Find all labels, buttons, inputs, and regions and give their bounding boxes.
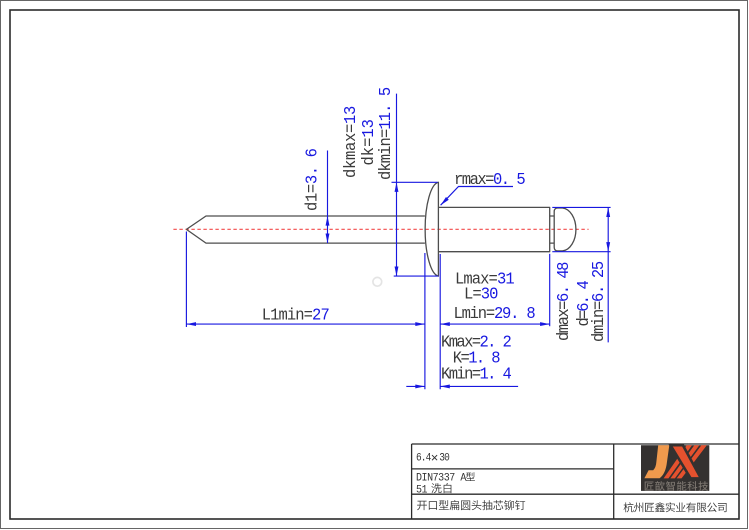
extension line body top [552,206,610,208]
arrow L left [440,322,450,326]
svg-text:×: × [431,450,439,465]
logo X descending stroke [671,445,701,478]
svg-text:Lmin=29. 8: Lmin=29. 8 [454,305,536,324]
arrow K right [440,384,450,388]
dimension line d [607,207,609,342]
dimension line L [440,323,550,325]
arrow dk bottom [395,267,399,277]
svg-text:rmax=0. 5: rmax=0. 5 [454,170,525,189]
arrow rmax leader [439,197,449,207]
logo slogan [645,482,654,491]
dimension line L1min [186,323,425,325]
extension line flange left face [424,253,426,389]
logo J [644,445,669,478]
extension line flange right face [439,254,441,389]
logo dark box [641,445,709,491]
extension line body bottom [552,251,610,253]
dimension line dk [396,94,398,277]
extension line from pin tip [185,232,187,328]
arrow L right [540,322,550,326]
pin neck between body and mandrel head [550,216,555,243]
arrow d1 bottom [326,234,330,244]
svg-text:dmin=6. 25: dmin=6. 25 [590,261,609,342]
arrow d top [606,207,610,217]
svg-text:Kmin=1. 4: Kmin=1. 4 [441,365,511,384]
mandrel pin with pointed tip [186,216,425,243]
svg-text:d1=3. 6: d1=3. 6 [303,148,322,211]
leader rmax [441,187,513,206]
title text product name [417,501,427,510]
extension line flange top [392,181,438,183]
rivet flange head (dome) [425,182,438,276]
extension line body end [549,254,551,326]
svg-text:6.4: 6.4 [416,453,431,465]
extension line flange bottom [394,275,439,277]
svg-text:L=30: L=30 [464,285,498,304]
svg-text:dmax=6. 48: dmax=6. 48 [554,262,573,341]
svg-text:dkmax=13: dkmax=13 [341,106,360,178]
arrow L1min right [415,322,425,326]
svg-text:51: 51 [416,484,427,496]
svg-text:dk=13: dk=13 [359,119,378,165]
title block lines [412,444,739,519]
dimension line K right [440,385,518,387]
arrow d1 top [326,216,330,226]
dimension line d1 [327,151,329,244]
mandrel head (dome at right) [554,208,576,251]
svg-text:dkmin=11. 5: dkmin=11. 5 [377,87,396,180]
svg-text:L1min=27: L1min=27 [262,306,329,325]
arrow L1min left [186,322,196,326]
arrow K left [415,384,425,388]
arrow d bottom [606,242,610,252]
logo X ascending stripes [664,445,707,478]
rivet body (shank) [438,207,549,251]
watermark ring [373,277,382,286]
dimension line K left [406,385,425,387]
company name [624,502,634,512]
arrow dk top [395,182,399,192]
svg-text:30: 30 [439,453,449,465]
centerline (axis) [173,228,588,230]
svg-text:DIN7337 A: DIN7337 A [416,472,467,484]
